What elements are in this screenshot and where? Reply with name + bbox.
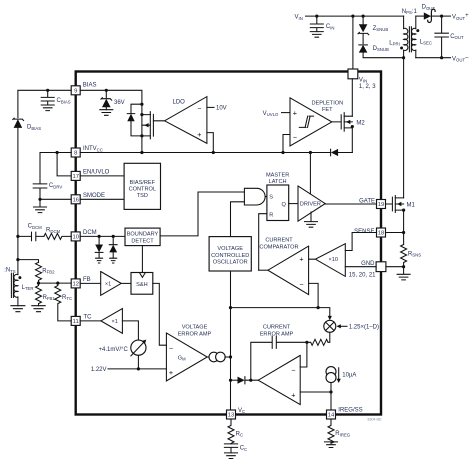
resistor RIREG: [328, 419, 351, 443]
ground CC: [225, 453, 238, 459]
svg-text:−: −: [293, 133, 297, 142]
pin 17 EN/UVLO: [71, 170, 109, 181]
diode CEA output clamp: [231, 377, 259, 384]
capacitor CIN: [310, 16, 334, 32]
junction diode-VC: [229, 379, 232, 382]
pin 18 SENSE: [354, 228, 385, 237]
junction FB-RFB2: [37, 282, 40, 285]
diode DOUT: [416, 5, 442, 23]
svg-text:VOLTAGE: VOLTAGE: [182, 325, 208, 331]
junction VOUT-: [440, 56, 443, 59]
wire M1 drain to transformer: [403, 58, 405, 198]
svg-text:CBIAS: CBIAS: [57, 98, 71, 104]
svg-text:LDO: LDO: [173, 100, 186, 106]
svg-text:SMODE: SMODE: [83, 193, 105, 199]
svg-text:1, 2, 3: 1, 2, 3: [359, 84, 376, 90]
svg-text:GATE: GATE: [359, 198, 375, 204]
capacitor CC: [224, 444, 247, 453]
junction tertiary node: [16, 258, 19, 261]
svg-text:+: +: [299, 255, 303, 264]
svg-text:TC: TC: [84, 315, 93, 321]
source tempco +4.1mV/C: [99, 340, 147, 369]
svg-text:11: 11: [73, 319, 79, 325]
wire comparator - to VC line: [309, 283, 319, 307]
pin GND 15,20,21: [349, 261, 386, 279]
svg-text:DOUT: DOUT: [422, 5, 436, 11]
svg-text:+: +: [293, 108, 297, 117]
resistor RSNS: [401, 245, 422, 267]
svg-text:DETECT: DETECT: [131, 238, 154, 244]
svg-text:10µA: 10µA: [342, 372, 356, 378]
svg-text:1.25×(1–D): 1.25×(1–D): [349, 325, 379, 331]
ground SMODE: [34, 199, 47, 212]
junction VC row: [229, 306, 232, 309]
op-amp GM voltage error amp: [166, 325, 211, 381]
svg-text:R: R: [269, 213, 273, 219]
wire BIAS external: [18, 90, 71, 117]
resistor RFB2: [36, 262, 56, 283]
node VOUT+ label: [452, 13, 469, 21]
zener DBIAS: [13, 118, 41, 236]
multiplier 1.25x(1-D): [324, 320, 379, 332]
svg-text:OSCILLATOR: OSCILLATOR: [213, 260, 248, 266]
winding LTER (NTS): [4, 260, 33, 306]
wire BIAS internal: [80, 90, 142, 152]
wire latch R input: [259, 214, 267, 271]
svg-text:RFB2: RFB2: [42, 268, 55, 274]
wire CEA minus input: [300, 342, 307, 367]
comparator UVLO: [290, 98, 332, 146]
transformer primary LPRI: [389, 16, 408, 58]
junction VOUT+: [440, 15, 443, 18]
svg-text:−: −: [169, 343, 173, 352]
pin 10 DCM: [71, 230, 96, 241]
comparator CURRENT COMPARATOR: [259, 238, 308, 295]
svg-text:LSEC: LSEC: [420, 39, 432, 45]
winding phase dot: [18, 276, 21, 279]
svg-text:CONTROL: CONTROL: [129, 187, 156, 193]
junction comp minus: [317, 306, 320, 309]
junction SENSE-RSNS: [402, 231, 405, 234]
amp DRIVER: [298, 153, 325, 228]
resistor RC: [228, 419, 243, 444]
transistor M2: [332, 79, 366, 153]
svg-text:VOUT–: VOUT–: [452, 55, 469, 63]
svg-text:×1: ×1: [105, 282, 111, 288]
transformer core: [409, 27, 411, 52]
svg-text:RFB1: RFB1: [43, 295, 56, 301]
svg-text:15, 20, 21: 15, 20, 21: [349, 272, 376, 278]
transistor LDO pass FET: [140, 112, 153, 139]
svg-text:ERROR AMP: ERROR AMP: [178, 331, 212, 337]
node 10V reference: [207, 106, 227, 112]
wire to VOUT+: [442, 15, 451, 17]
svg-text:CONTROLLED: CONTROLLED: [211, 253, 249, 259]
svg-text:×10: ×10: [329, 257, 339, 263]
svg-text:RDCM: RDCM: [46, 228, 61, 234]
label DEPLETION FET: [311, 101, 343, 114]
svg-text:8: 8: [74, 151, 77, 157]
block S&H: [121, 273, 153, 295]
svg-text:RSNS: RSNS: [408, 251, 421, 257]
wire VC vertical line: [230, 237, 232, 410]
svg-text:17: 17: [72, 174, 78, 180]
ground RIREG: [325, 442, 338, 448]
svg-text:10: 10: [72, 235, 78, 241]
wire DCM internal: [80, 235, 125, 237]
svg-text:COMPARATOR: COMPARATOR: [259, 244, 298, 250]
wire TC buffer to tempco source: [122, 321, 138, 340]
junction M1 source: [402, 209, 405, 212]
svg-text:19: 19: [378, 202, 384, 208]
pin 9 BIAS: [71, 82, 96, 95]
diode DCM clamp up: [109, 236, 117, 263]
svg-text:−: −: [197, 104, 201, 113]
junction VIN-pin drop: [351, 15, 354, 18]
arrow into multiplier: [328, 316, 332, 320]
junction FB-RTC: [56, 282, 59, 285]
wire UVLO - wrap to rail: [283, 135, 290, 153]
block BIAS/REF CONTROL TSD: [80, 163, 160, 209]
svg-text:VOUT+: VOUT+: [452, 13, 469, 21]
svg-text:GND: GND: [361, 261, 375, 267]
wire LDO + input to rail: [207, 133, 213, 153]
svg-text:DEPLETION: DEPLETION: [311, 101, 343, 107]
svg-text:MASTER: MASTER: [266, 172, 289, 178]
svg-text:RTC: RTC: [62, 295, 72, 301]
svg-text:CURRENT: CURRENT: [265, 238, 293, 244]
svg-text:LATCH: LATCH: [269, 179, 287, 185]
junction snubber-primary bottom: [402, 56, 405, 59]
amp x10 sense: [309, 244, 346, 277]
junction DCM left: [16, 235, 19, 238]
svg-text:LPRI: LPRI: [389, 40, 400, 46]
junction clamp diode 2: [112, 235, 115, 238]
transformer ratio label NPS:1: [402, 9, 418, 15]
svg-text:FET: FET: [322, 107, 333, 113]
svg-text:+: +: [169, 368, 173, 377]
junction tempco-1.22V: [137, 367, 140, 370]
junction CEA minus node: [305, 341, 308, 344]
svg-text:CURRENT: CURRENT: [263, 325, 291, 331]
svg-text:×1: ×1: [112, 319, 118, 325]
svg-text:CC: CC: [240, 446, 247, 452]
svg-text:13: 13: [228, 413, 234, 419]
wire left rail down to tertiary node: [17, 236, 19, 259]
svg-text:RIREG: RIREG: [335, 431, 351, 437]
wire GND external: [386, 266, 404, 268]
buffer x1 FB: [80, 272, 121, 296]
transistor M1: [386, 196, 416, 213]
svg-text:BOUNDARY: BOUNDARY: [127, 232, 159, 238]
svg-text:INTVCC: INTVCC: [83, 146, 103, 152]
svg-text:+: +: [197, 130, 201, 139]
wire SENSE external: [386, 210, 404, 244]
junction CEA out feedback tap: [249, 379, 252, 382]
svg-text:GM: GM: [178, 356, 186, 362]
op-amp CURRENT ERROR AMP: [258, 325, 300, 405]
svg-text:−: −: [299, 280, 303, 289]
capacitor CDRV: [33, 183, 62, 199]
svg-text:ERROR AMP: ERROR AMP: [260, 331, 294, 337]
pin 16 SMODE: [71, 193, 105, 204]
pin 19 GATE: [359, 198, 385, 208]
ground LTER: [11, 306, 25, 312]
capacitor CBIAS: [41, 90, 71, 105]
wire latch Q to driver: [289, 203, 298, 205]
current source GM output: [207, 352, 230, 362]
svg-text:DRIVER: DRIVER: [300, 202, 321, 208]
svg-text:VIN: VIN: [295, 15, 303, 21]
svg-text:NPS:1: NPS:1: [402, 9, 418, 15]
node VOUT- label: [452, 55, 469, 63]
pin 8 INTVCC: [71, 146, 103, 157]
op-amp LDO: [153, 97, 207, 144]
junction clamp diode 1: [98, 235, 101, 238]
svg-text:IREG/SS: IREG/SS: [338, 407, 362, 413]
wire S&H out to GM -: [153, 283, 167, 345]
svg-text:+: +: [291, 390, 295, 399]
svg-text:EN/UVLO: EN/UVLO: [83, 170, 110, 176]
zener 36V: [101, 90, 125, 109]
svg-text:+4.1mV/°C: +4.1mV/°C: [99, 347, 129, 353]
wire VOUT- rail: [416, 57, 451, 59]
svg-text:S&H: S&H: [136, 282, 148, 288]
svg-text:S: S: [269, 195, 273, 201]
gate AND master set: [244, 188, 267, 205]
ground 36V: [100, 110, 113, 116]
svg-text:−: −: [291, 365, 295, 374]
svg-text:12: 12: [72, 282, 78, 288]
svg-text:1.22V: 1.22V: [91, 367, 107, 373]
svg-text:CIN: CIN: [326, 24, 335, 30]
svg-text:LTER: LTER: [22, 285, 34, 291]
junction 10uA node: [329, 390, 332, 393]
svg-text:VUVLO: VUVLO: [263, 111, 279, 117]
wire INTVCC external: [40, 153, 71, 184]
pin 14 IREG/SS: [327, 407, 363, 419]
wire VIN drop to pin: [352, 16, 354, 69]
pin 11 TC: [71, 315, 92, 326]
svg-text:CDCM: CDCM: [28, 224, 43, 230]
svg-text:BIAS/REF: BIAS/REF: [130, 180, 156, 186]
svg-text:RC: RC: [236, 431, 243, 437]
resistor RDCM: [44, 228, 71, 240]
svg-text:10V: 10V: [216, 106, 227, 112]
node VIN label: [295, 15, 303, 21]
junction VIN-snubber: [362, 15, 365, 18]
wire GATE from driver: [325, 203, 376, 205]
junction CBIAS: [46, 89, 49, 92]
capacitor CDCM: [18, 224, 44, 241]
wire VIN top rail: [306, 15, 404, 17]
wire multiplier to resistor: [328, 332, 330, 342]
diode LDO body: [127, 104, 142, 136]
svg-text:36V: 36V: [114, 100, 125, 106]
wire FB node: [39, 282, 72, 284]
svg-text:TSD: TSD: [137, 193, 148, 199]
zener ZSNUB: [358, 16, 388, 43]
node 1.22V reference: [91, 367, 167, 373]
wire x10 bottom input from GND: [345, 266, 376, 268]
block BOUNDARY DETECT: [125, 228, 160, 246]
wire x10 top input from SENSE: [345, 233, 376, 251]
pin 12 FB: [71, 277, 90, 288]
svg-text:8304 BD: 8304 BD: [368, 417, 382, 421]
svg-text:ZSNUB: ZSNUB: [373, 26, 389, 32]
svg-text:DSNUB: DSNUB: [373, 46, 389, 52]
transformer phase dot secondary: [416, 29, 419, 32]
svg-text:M2: M2: [356, 120, 365, 126]
current source 10uA: [326, 367, 356, 392]
transformer phase dot primary: [400, 47, 403, 50]
svg-text:VOLTAGE: VOLTAGE: [217, 246, 243, 252]
diode DSNUB: [359, 45, 404, 58]
svg-text:VC: VC: [238, 408, 245, 414]
node VUVLO: [263, 111, 290, 117]
ground RFB1: [32, 306, 45, 312]
junction GM out on VC: [229, 355, 232, 358]
ground CIN: [310, 32, 323, 38]
svg-text:FB: FB: [83, 277, 91, 283]
resistor RTC: [55, 283, 72, 321]
transformer secondary LSEC: [411, 16, 431, 58]
diode rail to M2 source: [331, 149, 339, 156]
wire EN/UVLO external: [57, 153, 71, 176]
junction LDO FET top: [140, 103, 143, 106]
junction SMODE-CDRV: [38, 198, 41, 201]
ground RSNS: [397, 267, 410, 280]
resistor CEA feedback: [307, 339, 328, 345]
buffer x1 TC: [80, 309, 122, 334]
wire CEA + input to IREG/SS: [300, 392, 331, 410]
junction 36V zener: [105, 89, 108, 92]
svg-text:M1: M1: [407, 202, 416, 208]
ground CBIAS: [41, 105, 54, 111]
junction M2 source: [351, 125, 354, 128]
svg-text:Q: Q: [281, 202, 286, 208]
wire INTVCC rail internal: [80, 152, 352, 154]
svg-text:16: 16: [72, 198, 78, 204]
junction rail-FET: [140, 151, 143, 154]
wire boundary out right-up to AND: [160, 192, 244, 236]
junction rail-UVLO: [281, 151, 284, 154]
capacitor COUT: [435, 16, 464, 58]
wire comparator out to latch R (junction at R riser): [259, 269, 268, 271]
svg-text:VIN: VIN: [359, 77, 367, 83]
svg-text:9: 9: [74, 89, 77, 95]
capacitor CEA feedback: [251, 336, 307, 380]
wire to RFB2: [18, 260, 39, 263]
resistor RFB1: [36, 283, 56, 306]
svg-text:COUT: COUT: [450, 34, 464, 40]
svg-text:BIAS: BIAS: [83, 82, 97, 88]
main IC boundary box: [76, 72, 381, 415]
junction rail-LDO+: [212, 151, 215, 154]
svg-text:CDRV: CDRV: [49, 183, 62, 189]
block VOLTAGE CONTROLLED OSCILLATOR: [209, 237, 251, 271]
junction EN/UVLO tie: [56, 151, 59, 154]
junction rail-driver: [309, 151, 312, 154]
svg-text::NTS: :NTS: [4, 268, 16, 274]
svg-text:DCM: DCM: [83, 230, 97, 236]
wire VC to multiplier row: [231, 308, 330, 317]
svg-text:18: 18: [378, 231, 384, 237]
pin VIN 1,2,3: [348, 69, 376, 90]
junction GND-RSNS: [402, 265, 405, 268]
wire AND lower input from VCO line: [231, 202, 245, 237]
svg-text:DBIAS: DBIAS: [27, 125, 41, 131]
pin 13 VC: [227, 408, 246, 419]
block MASTER LATCH: [266, 172, 289, 220]
svg-text:14: 14: [328, 413, 335, 419]
wire SMODE external: [40, 198, 71, 200]
wire boundary down to S&H: [141, 246, 143, 273]
diode DCM clamp down: [95, 236, 103, 263]
junction VIN-CIN: [315, 15, 318, 18]
